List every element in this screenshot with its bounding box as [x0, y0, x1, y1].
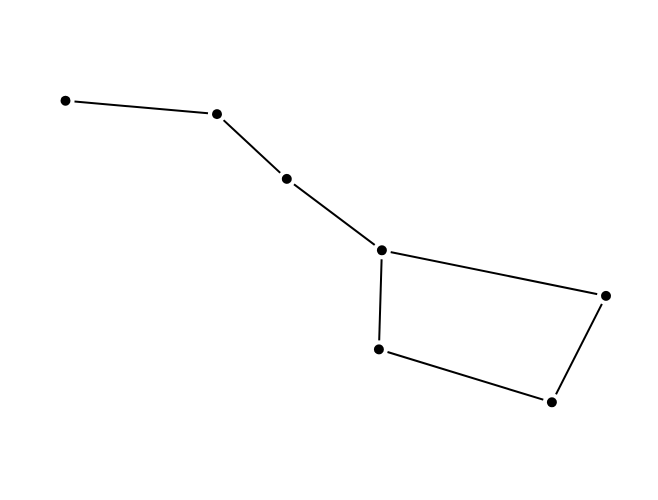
node: star 1 Alkaid: [61, 96, 71, 106]
wire: line Mizar-Alioth (2-3): [224, 120, 281, 173]
wire: line Dubhe-Merak (5-7): [556, 304, 602, 394]
wire: line Megrez-Phecda (4-6): [379, 259, 381, 340]
node: star 6 Phecda: [374, 344, 384, 354]
node: star 4 Megrez: [377, 245, 387, 255]
node: star 2 Mizar: [212, 109, 222, 119]
wire: line Phecda-Merak (6-7): [388, 352, 544, 400]
node: star 5 Dubhe: [601, 291, 611, 301]
wire: line Alkaid-Mizar (1-2): [75, 102, 209, 114]
wire: line Alioth-Megrez (3-4): [294, 184, 375, 245]
wire: line Megrez-Dubhe (4-5): [391, 252, 598, 294]
node: star 7 Merak: [547, 397, 557, 407]
node: star 3 Alioth: [282, 174, 292, 184]
